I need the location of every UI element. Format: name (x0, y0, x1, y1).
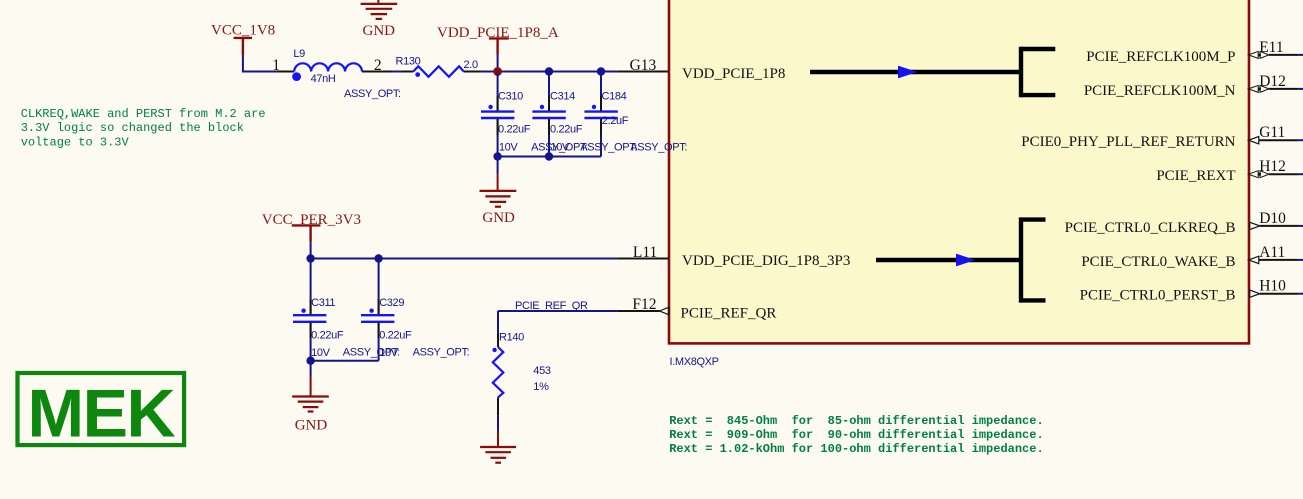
svg-text:C329: C329 (379, 297, 404, 309)
pin D12 line (1269, 88, 1299, 90)
svg-text:PCIE_CTRL0_CLKREQ_B: PCIE_CTRL0_CLKREQ_B (1065, 220, 1236, 236)
wire C310 bottom (497, 119, 499, 157)
pin A11 line (1259, 259, 1299, 261)
wire PCIE_REF_QR horizontal (498, 310, 617, 312)
pin 1 of L9 (277, 71, 294, 73)
ground stem top (377, 0, 379, 4)
polarity dot C311 (301, 309, 305, 313)
svg-text:D10: D10 (1259, 210, 1286, 227)
pin F12 of U1 (617, 310, 659, 312)
polarity dot C314 (540, 105, 544, 109)
pin 2 of R140 (497, 397, 499, 415)
pin H10 line (1260, 293, 1299, 295)
svg-text:CLKREQ,WAKE and PERST from M.2: CLKREQ,WAKE and PERST from M.2 are (21, 107, 266, 121)
svg-text:PCIE_CTRL0_PERST_B: PCIE_CTRL0_PERST_B (1080, 288, 1236, 304)
wire to ground 2 (310, 361, 312, 377)
svg-text:G13: G13 (630, 57, 657, 74)
pin D10 line (1260, 225, 1299, 227)
svg-text:I.MX8QXP: I.MX8QXP (670, 356, 719, 368)
inductor L9 body (294, 63, 362, 71)
svg-text:MEK: MEK (28, 376, 176, 452)
IC block U1 i.MX8QXP body (669, 0, 1249, 343)
svg-text:GND: GND (482, 210, 515, 226)
polarity dot C310 (488, 105, 492, 109)
pin H12 glyph (1248, 171, 1269, 178)
svg-text:G11: G11 (1259, 124, 1285, 141)
wire rail VDD_PCIE_DIG (311, 258, 618, 260)
bus bracket 1 (1021, 47, 1055, 98)
ground stem 2 (310, 377, 312, 397)
junction C329 top (374, 254, 382, 262)
svg-text:1: 1 (272, 57, 280, 74)
wire to ground (497, 157, 499, 175)
svg-text:PCIE0_PHY_PLL_REF_RETURN: PCIE0_PHY_PLL_REF_RETURN (1021, 134, 1235, 150)
svg-text:10V: 10V (311, 347, 331, 359)
svg-text:10V: 10V (379, 347, 399, 359)
polarity dot C329 (369, 309, 373, 313)
cap pin stubs (497, 96, 499, 111)
capacitor C311 (293, 315, 326, 322)
polarity dot C184 (592, 105, 596, 109)
svg-text:ASSY_OPT:: ASSY_OPT: (344, 88, 401, 100)
pin 1 of R130 (402, 71, 414, 73)
bus bracket 2 (1021, 217, 1046, 302)
resistor R130 body (413, 66, 464, 77)
svg-text:F12: F12 (632, 296, 656, 313)
svg-text:PCIE_REFCLK100M_N: PCIE_REFCLK100M_N (1084, 83, 1236, 99)
pin G11 glyph (1249, 137, 1259, 144)
pin H10 glyph (1250, 290, 1260, 297)
wire L9 to R130 (392, 71, 402, 73)
wire G11 (1299, 139, 1303, 141)
pin 2 of L9 (362, 71, 392, 73)
svg-text:10V: 10V (551, 141, 571, 153)
junction node VDD_PCIE_1P8_A (493, 67, 502, 76)
polarity dot R140 (492, 348, 496, 352)
pin G13 of U1 (618, 71, 669, 73)
svg-text:PCIE_REFCLK100M_P: PCIE_REFCLK100M_P (1086, 49, 1235, 65)
pin glyph F12 (660, 307, 669, 314)
polarity dot R130 (415, 72, 420, 77)
wire C310 top (497, 72, 499, 111)
wire C314 top (548, 72, 550, 111)
wire R140 to ground (497, 416, 499, 431)
bus arrow 2 (956, 254, 975, 267)
svg-text:C184: C184 (602, 90, 627, 102)
wire cap bottom rail 2 (311, 360, 379, 362)
svg-text:R130: R130 (396, 56, 421, 68)
svg-text:ASSY_OPT:: ASSY_OPT: (580, 141, 637, 153)
svg-text:voltage to 3.3V: voltage to 3.3V (21, 135, 130, 149)
wire C184 top (600, 72, 602, 111)
capacitor C314 (532, 112, 565, 118)
pin D10 glyph (1250, 222, 1260, 229)
junction C314 bottom (545, 152, 553, 160)
svg-text:Rext = 909-Ohm for 90-ohm d: Rext = 909-Ohm for 90-ohm differential i… (669, 428, 1043, 442)
svg-text:0.22uF: 0.22uF (379, 330, 412, 342)
resistor R140 body (493, 347, 504, 397)
power bus line 1 (810, 70, 1021, 74)
svg-text:3.3V logic so changed the bloc: 3.3V logic so changed the block (21, 121, 244, 135)
wire C311 top (310, 259, 312, 315)
svg-text:VCC_1V8: VCC_1V8 (211, 23, 275, 39)
wire D12 (1299, 88, 1303, 90)
pin L11 of U1 (617, 258, 669, 260)
pin 1 of R140 (497, 334, 499, 347)
wire H12 (1299, 173, 1303, 175)
wire C311 bottom (310, 323, 312, 361)
svg-text:H12: H12 (1259, 158, 1286, 175)
svg-text:0.22uF: 0.22uF (550, 123, 583, 135)
wire VCC_1V8 to L9 pin1 (243, 55, 277, 72)
wire A11 (1299, 259, 1303, 261)
wire C314 bottom (548, 119, 550, 157)
svg-text:GND: GND (295, 418, 328, 434)
power bus line 2 (876, 258, 1021, 262)
ground stem 3 (497, 431, 499, 447)
svg-text:0.22uF: 0.22uF (311, 330, 344, 342)
svg-text:2: 2 (374, 57, 382, 74)
capacitor C184 (584, 112, 617, 118)
svg-text:VDD_PCIE_DIG_1P8_3P3: VDD_PCIE_DIG_1P8_3P3 (682, 253, 850, 269)
svg-text:R140: R140 (499, 332, 524, 344)
wire E11 (1299, 54, 1303, 56)
svg-text:C310: C310 (498, 90, 523, 102)
svg-text:ASSY_OPT:: ASSY_OPT: (413, 347, 470, 359)
power symbol VCC_1V8 (234, 38, 252, 55)
svg-text:ASSY_OPT:: ASSY_OPT: (630, 141, 687, 153)
wire VCC_PER_3V3 stem (310, 242, 312, 259)
svg-text:PCIE_REF_QR: PCIE_REF_QR (681, 305, 777, 321)
svg-text:2.2uF: 2.2uF (602, 115, 629, 127)
power symbol VCC_PER_3V3 (292, 225, 321, 241)
wire cap bottom rail (498, 156, 601, 158)
wire VDD_PCIE_1P8_A stem (497, 55, 499, 72)
ground symbol bottom (480, 447, 516, 463)
junction C311 bottom (306, 357, 314, 365)
pin 2 of R130 (464, 71, 481, 73)
svg-text:0.22uF: 0.22uF (498, 123, 531, 135)
svg-text:Rext = 1.02-kOhm for 100-ohm d: Rext = 1.02-kOhm for 100-ohm differentia… (669, 442, 1043, 456)
svg-text:VDD_PCIE_1P8_A: VDD_PCIE_1P8_A (437, 25, 559, 41)
ground stem (497, 174, 499, 191)
svg-text:Rext = 845-Ohm for 85-ohm d: Rext = 845-Ohm for 85-ohm differential i… (669, 414, 1043, 428)
wire C329 bottom (378, 323, 380, 361)
svg-text:A11: A11 (1259, 244, 1285, 261)
svg-text:453: 453 (533, 365, 551, 377)
ground symbol top (361, 4, 398, 19)
junction C184 top (597, 67, 605, 75)
svg-text:GND: GND (363, 23, 396, 39)
wire C184 bottom (600, 119, 602, 157)
svg-text:L11: L11 (633, 244, 657, 261)
wire D10 (1299, 225, 1303, 227)
svg-text:PCIE_REF_QR: PCIE_REF_QR (515, 300, 588, 312)
svg-text:D12: D12 (1259, 73, 1286, 90)
svg-text:PCIE_REXT: PCIE_REXT (1156, 168, 1235, 184)
pin A11 glyph (1249, 256, 1259, 263)
wire R130 to node VDD_PCIE_1P8_A (481, 71, 618, 73)
svg-text:1%: 1% (533, 381, 549, 393)
junction C310 bottom (493, 152, 501, 160)
svg-text:C314: C314 (550, 90, 575, 102)
svg-text:2.0: 2.0 (464, 59, 478, 71)
junction C311 top (306, 254, 314, 262)
polarity dot L9 pin1 (292, 72, 301, 81)
ground symbol lower-left (292, 397, 329, 412)
svg-text:VCC_PER_3V3: VCC_PER_3V3 (262, 212, 361, 228)
svg-text:VDD_PCIE_1P8: VDD_PCIE_1P8 (682, 66, 785, 82)
wire C329 top (378, 259, 380, 315)
svg-text:C311: C311 (311, 297, 335, 309)
bus arrow 1 (898, 66, 917, 79)
ground symbol mid (480, 191, 517, 207)
pin E11 line (1269, 54, 1299, 56)
svg-text:L9: L9 (293, 48, 305, 60)
pin E11 glyph (1248, 51, 1269, 58)
svg-text:PCIE_CTRL0_WAKE_B: PCIE_CTRL0_WAKE_B (1081, 254, 1235, 270)
wire R140 top (497, 311, 499, 334)
power symbol VDD_PCIE_1P8_A (489, 38, 509, 54)
svg-text:47nH: 47nH (311, 73, 336, 85)
capacitor C310 (481, 112, 514, 118)
junction C314 top (545, 67, 553, 75)
pin H12 line (1269, 173, 1299, 175)
svg-text:E11: E11 (1259, 39, 1283, 56)
pin D12 glyph (1248, 85, 1269, 92)
wire H10 (1299, 293, 1303, 295)
svg-text:10V: 10V (499, 141, 519, 153)
capacitor C329 (361, 315, 394, 322)
pin G11 line (1259, 139, 1299, 141)
MEK logo frame (18, 373, 185, 445)
svg-text:H10: H10 (1259, 278, 1286, 295)
